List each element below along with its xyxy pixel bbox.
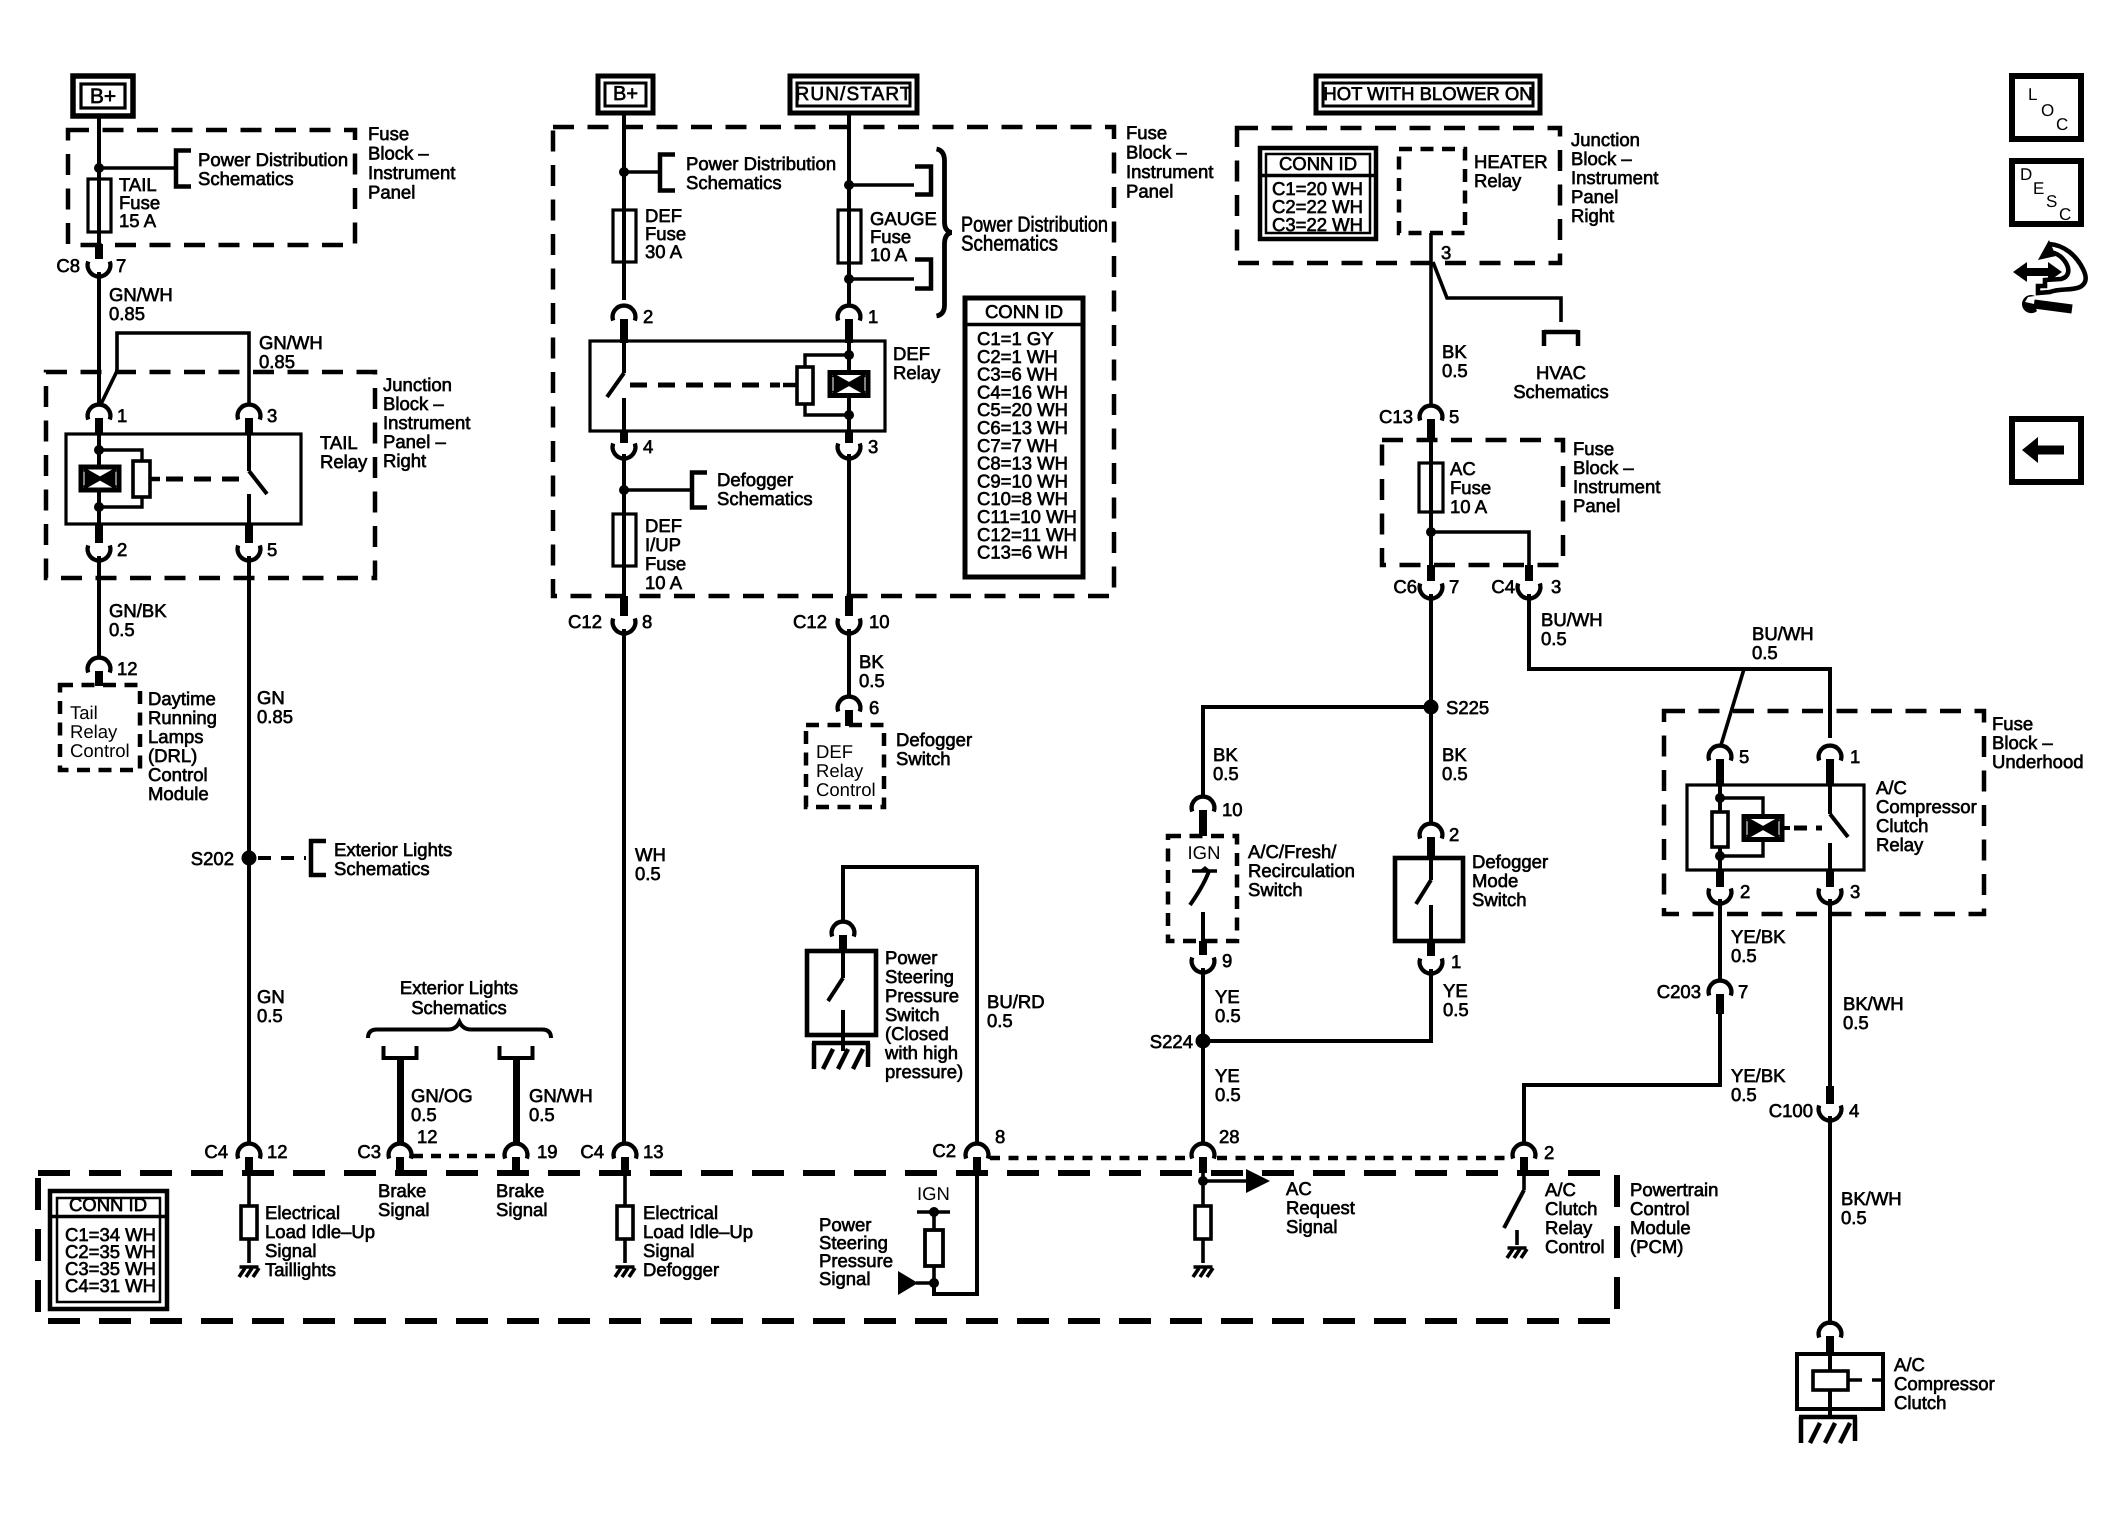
svg-text:1: 1 bbox=[117, 405, 127, 426]
A/C relay coil bbox=[1744, 817, 1782, 840]
svg-text:HEATER: HEATER bbox=[1474, 151, 1548, 172]
svg-text:Block –: Block – bbox=[1992, 732, 2053, 753]
svg-text:1: 1 bbox=[868, 306, 878, 327]
svg-text:Instrument: Instrument bbox=[1571, 167, 1658, 188]
A/C relay resistor bbox=[1712, 812, 1728, 847]
label Brake Signal (19) bbox=[496, 1180, 547, 1220]
ground (AC request) bbox=[1193, 1267, 1213, 1277]
A/C relay dashed actuation line bbox=[1782, 826, 1822, 830]
svg-text:Right: Right bbox=[383, 450, 426, 471]
svg-text:GN/OG: GN/OG bbox=[411, 1085, 473, 1106]
off-page bracket bottom (power distribution) bbox=[915, 260, 931, 289]
svg-text:BK: BK bbox=[1213, 744, 1238, 765]
curly brace power distribution bbox=[937, 149, 952, 316]
svg-text:Relay: Relay bbox=[1876, 834, 1924, 855]
svg-text:Relay: Relay bbox=[816, 760, 864, 781]
svg-text:C13: C13 bbox=[1379, 406, 1413, 427]
svg-text:Power: Power bbox=[885, 947, 937, 968]
svg-text:Fuse: Fuse bbox=[1992, 713, 2033, 734]
svg-text:L: L bbox=[2028, 85, 2037, 104]
svg-text:12: 12 bbox=[117, 658, 138, 679]
CONN ID table (middle) bbox=[965, 298, 1083, 577]
svg-text:Schematics: Schematics bbox=[961, 232, 1058, 256]
svg-text:0.5: 0.5 bbox=[987, 1010, 1013, 1031]
off-page fork (brake signal right) bbox=[500, 1046, 593, 1144]
A/C relay switch bbox=[1830, 785, 1848, 870]
svg-text:Exterior Lights: Exterior Lights bbox=[334, 839, 452, 860]
svg-text:Schematics: Schematics bbox=[1513, 381, 1609, 402]
off-page bracket: Defogger Schematics bbox=[692, 469, 813, 509]
svg-text:Module: Module bbox=[1630, 1217, 1691, 1238]
node: tap to Power Distribution Schematics (middle) bbox=[619, 167, 658, 177]
svg-text:Instrument: Instrument bbox=[368, 162, 455, 183]
ground (defogger load) bbox=[615, 1267, 635, 1277]
svg-text:13: 13 bbox=[643, 1141, 664, 1162]
svg-text:B+: B+ bbox=[613, 83, 638, 105]
svg-text:8: 8 bbox=[642, 611, 652, 632]
svg-text:Module: Module bbox=[148, 783, 209, 804]
icon box back-arrow bbox=[2012, 419, 2081, 482]
svg-text:Defogger: Defogger bbox=[1472, 851, 1548, 872]
CONN ID table (PCM) bbox=[50, 1191, 167, 1309]
connector pin 3 (A/C relay) bbox=[1819, 870, 1861, 903]
svg-text:0.5: 0.5 bbox=[257, 1005, 283, 1026]
svg-text:3: 3 bbox=[1441, 242, 1451, 263]
svg-text:BK: BK bbox=[859, 651, 884, 672]
svg-text:0.5: 0.5 bbox=[1442, 763, 1468, 784]
ground (power steering switch) bbox=[812, 1043, 870, 1069]
svg-text:BK/WH: BK/WH bbox=[1841, 1188, 1902, 1209]
svg-text:Daytime: Daytime bbox=[148, 688, 216, 709]
svg-text:7: 7 bbox=[116, 255, 126, 276]
svg-text:E: E bbox=[2033, 179, 2044, 198]
svg-text:DEF: DEF bbox=[893, 343, 930, 364]
svg-text:RUN/START: RUN/START bbox=[796, 84, 912, 105]
node: GAUGE top tap bbox=[844, 180, 914, 190]
svg-text:HVAC: HVAC bbox=[1536, 362, 1586, 383]
junction block dashed box (left) bbox=[46, 372, 375, 578]
connector pin 3 (DEF relay) bbox=[838, 431, 879, 458]
resistor Electrical Load Idle-Up Signal Taillights bbox=[241, 1173, 257, 1263]
svg-text:Powertrain: Powertrain bbox=[1630, 1179, 1718, 1200]
switch box Power Steering Pressure Switch bbox=[807, 951, 876, 1051]
DEF relay coil branch bbox=[805, 343, 854, 431]
svg-text:2: 2 bbox=[643, 306, 653, 327]
svg-text:pressure): pressure) bbox=[885, 1061, 963, 1082]
svg-text:0.85: 0.85 bbox=[109, 303, 145, 324]
svg-text:6: 6 bbox=[869, 697, 879, 718]
svg-text:Compressor: Compressor bbox=[1894, 1373, 1995, 1394]
connector pin 2 (DEF relay) bbox=[613, 306, 654, 343]
svg-text:0.85: 0.85 bbox=[259, 351, 295, 372]
svg-text:C4: C4 bbox=[580, 1141, 604, 1162]
PCM dashed box bbox=[38, 1173, 1617, 1321]
svg-text:Switch: Switch bbox=[1472, 889, 1527, 910]
wire GN 0.5 (S202 to C4-12) bbox=[249, 865, 285, 1143]
svg-text:YE: YE bbox=[1215, 1065, 1240, 1086]
svg-text:10: 10 bbox=[869, 611, 890, 632]
svg-text:10: 10 bbox=[1222, 799, 1243, 820]
svg-text:Panel: Panel bbox=[1126, 181, 1173, 202]
svg-text:Instrument: Instrument bbox=[383, 412, 470, 433]
resistor AC request (PCM) bbox=[1195, 1206, 1211, 1263]
relay box TAIL Relay bbox=[66, 432, 368, 524]
connector pin 2 (A/C relay) bbox=[1709, 870, 1751, 903]
svg-text:O: O bbox=[2041, 101, 2054, 120]
svg-text:Relay: Relay bbox=[320, 451, 368, 472]
connector pin 3 (TAIL relay) bbox=[238, 405, 278, 435]
power symbol B+ (middle) bbox=[598, 76, 653, 113]
svg-text:C8: C8 bbox=[56, 255, 80, 276]
fuse block underhood dashed box bbox=[1664, 711, 1984, 914]
svg-text:1: 1 bbox=[1850, 746, 1860, 767]
svg-text:4: 4 bbox=[643, 436, 653, 457]
svg-text:C: C bbox=[2059, 205, 2071, 224]
relay box A/C Compressor Clutch Relay bbox=[1687, 777, 1977, 870]
svg-text:S225: S225 bbox=[1446, 697, 1489, 718]
dashed tap S202 to Exterior Lights Schematics bbox=[258, 839, 452, 879]
svg-text:0.5: 0.5 bbox=[1752, 642, 1778, 663]
svg-text:Load Idle–Up: Load Idle–Up bbox=[643, 1221, 753, 1242]
label Brake Signal (C3-12) bbox=[378, 1180, 429, 1220]
connector (compressor clutch, unnumbered) bbox=[1819, 1323, 1842, 1354]
wire YE/BK 0.5 (pin 2 to C203) bbox=[1720, 899, 1786, 980]
svg-text:Block –: Block – bbox=[368, 143, 429, 164]
fuse block dashed box (AC fuse) bbox=[1382, 440, 1563, 565]
svg-text:S: S bbox=[2046, 192, 2057, 211]
node S225 bbox=[1424, 697, 1490, 823]
DEF relay dashed actuation line bbox=[630, 383, 797, 388]
svg-text:Schematics: Schematics bbox=[717, 488, 813, 509]
power symbol B+ (left) bbox=[73, 76, 133, 116]
label Electrical Load Idle-Up Signal Taillights bbox=[265, 1202, 375, 1280]
svg-text:0.5: 0.5 bbox=[1443, 999, 1469, 1020]
svg-text:HOT WITH BLOWER ON: HOT WITH BLOWER ON bbox=[1323, 83, 1532, 104]
svg-text:8: 8 bbox=[995, 1126, 1005, 1147]
connector pin 1 (DEF relay) bbox=[838, 306, 879, 343]
svg-text:Relay: Relay bbox=[70, 721, 118, 742]
fuse GAUGE Fuse 10 A bbox=[838, 208, 937, 305]
label A/C Clutch Relay Control bbox=[1545, 1179, 1605, 1257]
svg-text:C: C bbox=[2056, 115, 2068, 134]
wire WH 0.5 (C12-8 to C4-13) bbox=[624, 629, 666, 1143]
svg-text:19: 19 bbox=[537, 1141, 558, 1162]
connector pin 28 (PCM) bbox=[1192, 1126, 1240, 1173]
svg-text:Junction: Junction bbox=[1571, 129, 1640, 150]
svg-text:IGN: IGN bbox=[917, 1183, 950, 1204]
connector pin 2 (TAIL relay) bbox=[88, 524, 128, 560]
icon vehicle arrow + wrench bbox=[2013, 240, 2086, 313]
svg-text:S224: S224 bbox=[1150, 1031, 1193, 1052]
svg-text:Schematics: Schematics bbox=[334, 858, 430, 879]
svg-text:2: 2 bbox=[1740, 881, 1750, 902]
connector pin 1 (A/C compressor clutch relay) bbox=[1819, 746, 1861, 785]
svg-text:0.5: 0.5 bbox=[109, 619, 135, 640]
svg-text:0.85: 0.85 bbox=[257, 706, 293, 727]
svg-text:0.5: 0.5 bbox=[1731, 1084, 1757, 1105]
connector C13 pin 5 bbox=[1379, 406, 1459, 440]
svg-text:Schematics: Schematics bbox=[686, 172, 782, 193]
svg-text:B+: B+ bbox=[90, 85, 116, 108]
svg-text:Pressure: Pressure bbox=[885, 985, 959, 1006]
svg-text:10 A: 10 A bbox=[870, 244, 908, 265]
connector C203 pin 7 bbox=[1657, 981, 1749, 1014]
wire BK/WH 0.5 (pin 3 to C100) bbox=[1830, 899, 1904, 1086]
A/C relay coil branch bbox=[1715, 785, 1763, 870]
node: AC fuse output tap bbox=[1426, 527, 1529, 565]
connector C12 pin 10 bbox=[793, 596, 890, 633]
svg-text:S202: S202 bbox=[191, 848, 234, 869]
dashed box A/C/Fresh/Recirculation Switch bbox=[1168, 836, 1237, 941]
wire BU/WH 0.5 (C4-3 to AC relay) bbox=[1529, 594, 1830, 738]
wire YE 0.5 (S224 to pin 28) bbox=[1203, 1041, 1241, 1143]
node: tap to Defogger Schematics bbox=[619, 454, 690, 514]
TAIL relay resistor bbox=[133, 461, 150, 497]
connector C2 pin 8 (PCM) bbox=[932, 1126, 1005, 1173]
label Fuse Block - Underhood bbox=[1992, 713, 2084, 772]
wire BK 0.5 (C6-7 to S225) bbox=[1431, 594, 1468, 784]
connector pin 5 (A/C compressor clutch relay) bbox=[1709, 746, 1750, 785]
dashed box DEF Relay Control (defogger switch) bbox=[806, 725, 884, 807]
wire heater relay pin 3 bbox=[1431, 233, 1451, 405]
wire BK 0.5 (heater to C13) bbox=[1442, 341, 1468, 381]
diagonal tap BU/WH to pin 5 bbox=[1721, 623, 1814, 745]
DEF relay switch bbox=[607, 343, 624, 431]
svg-text:3: 3 bbox=[1551, 576, 1561, 597]
svg-text:0.5: 0.5 bbox=[1731, 945, 1757, 966]
svg-text:Recirculation: Recirculation bbox=[1248, 860, 1355, 881]
off-page fork (brake signal left) bbox=[384, 1046, 473, 1144]
svg-text:15 A: 15 A bbox=[119, 210, 157, 231]
svg-text:Instrument: Instrument bbox=[1573, 476, 1660, 497]
connector pin 1 (TAIL relay) bbox=[88, 405, 128, 435]
label Fuse Block - Instrument Panel (AC) bbox=[1573, 438, 1660, 516]
svg-text:Block –: Block – bbox=[1126, 142, 1187, 163]
svg-text:0.5: 0.5 bbox=[1843, 1012, 1869, 1033]
svg-text:Lamps: Lamps bbox=[148, 726, 204, 747]
svg-text:Switch: Switch bbox=[885, 1004, 940, 1025]
dashed box HEATER Relay bbox=[1399, 149, 1548, 233]
connector pin 5 (TAIL relay) bbox=[238, 524, 278, 560]
svg-text:2: 2 bbox=[117, 539, 127, 560]
svg-text:3: 3 bbox=[868, 436, 878, 457]
svg-text:TAIL: TAIL bbox=[320, 432, 358, 453]
svg-text:Clutch: Clutch bbox=[1894, 1392, 1946, 1413]
svg-text:YE: YE bbox=[1443, 980, 1468, 1001]
svg-text:Exterior Lights: Exterior Lights bbox=[400, 977, 518, 998]
off-page bracket: Power Distribution Schematics bbox=[176, 149, 348, 189]
svg-text:C4: C4 bbox=[1491, 576, 1515, 597]
svg-text:Right: Right bbox=[1571, 205, 1614, 226]
label Electrical Load Idle-Up Signal Defogger bbox=[643, 1202, 753, 1280]
dotted PCM link C2-8 to 28 to 2 bbox=[990, 1156, 1510, 1161]
svg-text:Clutch: Clutch bbox=[1545, 1198, 1597, 1219]
TAIL relay coil branch bbox=[94, 434, 142, 524]
wire B+ to DEF fuse bbox=[622, 114, 626, 211]
off-page bracket top (power distribution) bbox=[915, 167, 931, 195]
connector C100 pin 4 bbox=[1769, 1086, 1860, 1121]
A/C clutch relay control driver (PCM) bbox=[1504, 1173, 1524, 1245]
wire power steering pressure switch loop bbox=[843, 867, 1045, 1143]
connector C3 pin 12 (PCM) bbox=[357, 1126, 437, 1173]
svg-text:GN: GN bbox=[257, 687, 285, 708]
connector pin 9 (A/C fresh/recirc switch) bbox=[1192, 941, 1233, 972]
curly brace Exterior Lights bbox=[368, 1022, 551, 1038]
wire loop GN/WH 0.85 to pin 3 bbox=[101, 332, 323, 404]
node: tap to Power Distribution Schematics bbox=[94, 163, 174, 173]
fuse DEF I/UP Fuse 10 A bbox=[613, 514, 686, 596]
svg-text:IGN: IGN bbox=[1188, 842, 1221, 863]
svg-text:GN/WH: GN/WH bbox=[259, 332, 323, 353]
ground (taillights load) bbox=[239, 1267, 259, 1277]
svg-text:Clutch: Clutch bbox=[1876, 815, 1928, 836]
off-page fork HVAC bbox=[1513, 330, 1609, 402]
svg-text:BK: BK bbox=[1442, 744, 1467, 765]
label Junction Block - Instrument Panel Right bbox=[1571, 129, 1658, 226]
fuse DEF Fuse 30 A bbox=[613, 205, 686, 300]
svg-text:CONN ID: CONN ID bbox=[985, 301, 1063, 322]
svg-text:0.5: 0.5 bbox=[1541, 628, 1567, 649]
svg-text:5: 5 bbox=[267, 539, 277, 560]
fuse block dashed box (left) bbox=[68, 130, 355, 245]
svg-text:GN/WH: GN/WH bbox=[529, 1085, 593, 1106]
label Daytime Running Lamps (DRL) Control Module bbox=[148, 688, 217, 804]
ground (A/C compressor clutch) bbox=[1799, 1417, 1857, 1443]
svg-text:Taillights: Taillights bbox=[265, 1259, 336, 1280]
svg-text:AC: AC bbox=[1450, 458, 1476, 479]
svg-text:0.5: 0.5 bbox=[411, 1104, 437, 1125]
label Defogger Switch bbox=[896, 729, 972, 769]
svg-text:C3: C3 bbox=[357, 1141, 381, 1162]
svg-text:Panel: Panel bbox=[1573, 495, 1620, 516]
svg-text:Signal: Signal bbox=[643, 1240, 694, 1261]
svg-text:DEF: DEF bbox=[816, 741, 853, 762]
connector C6 pin 7 bbox=[1393, 565, 1459, 598]
svg-text:12: 12 bbox=[267, 1141, 288, 1162]
resistor Electrical Load Idle-Up Signal Defogger bbox=[617, 1173, 633, 1263]
svg-text:Block –: Block – bbox=[383, 393, 444, 414]
svg-text:Fuse: Fuse bbox=[1126, 122, 1167, 143]
fuse TAIL Fuse 15 A bbox=[88, 174, 160, 258]
svg-text:I/UP: I/UP bbox=[645, 534, 681, 555]
svg-text:Signal: Signal bbox=[378, 1199, 429, 1220]
TAIL relay switch bbox=[249, 434, 267, 524]
connector (power steering switch, unnumbered) bbox=[832, 922, 855, 951]
svg-text:BU/WH: BU/WH bbox=[1752, 623, 1814, 644]
connector C4 pin 13 (PCM) bbox=[580, 1141, 663, 1173]
svg-text:Compressor: Compressor bbox=[1876, 796, 1977, 817]
label Junction Block - Instrument Panel - Right bbox=[383, 374, 470, 471]
node: GAUGE bottom tap bbox=[844, 274, 914, 284]
svg-text:Electrical: Electrical bbox=[265, 1202, 340, 1223]
svg-text:10 A: 10 A bbox=[645, 572, 683, 593]
svg-text:YE/BK: YE/BK bbox=[1731, 1065, 1786, 1086]
svg-text:Fuse: Fuse bbox=[1573, 438, 1614, 459]
svg-text:Control: Control bbox=[816, 779, 876, 800]
IGN reference (PCM) bbox=[917, 1183, 950, 1288]
svg-text:Relay: Relay bbox=[893, 362, 941, 383]
node S202 bbox=[191, 848, 257, 869]
svg-text:0.5: 0.5 bbox=[1442, 360, 1468, 381]
svg-text:Signal: Signal bbox=[1286, 1216, 1337, 1237]
svg-text:Underhood: Underhood bbox=[1992, 751, 2084, 772]
svg-text:C12: C12 bbox=[568, 611, 602, 632]
connector C4 pin 12 (PCM) bbox=[204, 1141, 287, 1173]
svg-text:Signal: Signal bbox=[819, 1268, 870, 1289]
svg-text:BK: BK bbox=[1442, 341, 1467, 362]
wire BK 0.5 (S225 to A/C switch) bbox=[1203, 707, 1431, 796]
connector pin 10 (A/C fresh/recirc switch) bbox=[1192, 797, 1243, 836]
svg-text:C4=31 WH: C4=31 WH bbox=[65, 1275, 156, 1296]
svg-text:with high: with high bbox=[884, 1042, 958, 1063]
label Powertrain Control Module (PCM) bbox=[1630, 1179, 1718, 1257]
DEF relay coil bbox=[830, 373, 868, 396]
connector pin 2 (defogger mode switch) bbox=[1420, 824, 1460, 858]
label Defogger Mode Switch bbox=[1472, 851, 1548, 910]
svg-text:Fuse: Fuse bbox=[645, 553, 686, 574]
wire BK/WH 0.5 (C100 to compressor clutch) bbox=[1830, 1116, 1902, 1325]
svg-text:Fuse: Fuse bbox=[1450, 477, 1491, 498]
svg-text:Schematics: Schematics bbox=[198, 168, 294, 189]
svg-text:C203: C203 bbox=[1657, 981, 1701, 1002]
svg-text:GN/WH: GN/WH bbox=[109, 284, 173, 305]
svg-text:Signal: Signal bbox=[496, 1199, 547, 1220]
label Exterior Lights Schematics (brace) bbox=[400, 977, 518, 1018]
svg-text:12: 12 bbox=[417, 1126, 438, 1147]
off-page bracket: Power Distribution Schematics (middle) bbox=[660, 153, 836, 193]
svg-text:(PCM): (PCM) bbox=[1630, 1236, 1683, 1257]
svg-text:CONN ID: CONN ID bbox=[69, 1194, 147, 1215]
svg-text:A/C: A/C bbox=[1545, 1179, 1576, 1200]
label Power Distribution Schematics (large) bbox=[961, 213, 1108, 256]
connector C4 pin 3 bbox=[1491, 565, 1561, 598]
svg-text:0.5: 0.5 bbox=[1215, 1005, 1241, 1026]
svg-text:YE: YE bbox=[1215, 986, 1240, 1007]
svg-text:DEF: DEF bbox=[645, 515, 682, 536]
svg-text:YE/BK: YE/BK bbox=[1731, 926, 1786, 947]
svg-text:C2: C2 bbox=[932, 1140, 956, 1161]
node: AC request tap bbox=[1198, 1173, 1208, 1206]
svg-text:GN/BK: GN/BK bbox=[109, 600, 167, 621]
TAIL relay dashed actuation line bbox=[150, 477, 243, 482]
wire GN/BK 0.5 bbox=[99, 556, 167, 657]
svg-text:Power Distribution: Power Distribution bbox=[198, 149, 348, 170]
svg-text:A/C/Fresh/: A/C/Fresh/ bbox=[1248, 841, 1337, 862]
svg-text:Defogger: Defogger bbox=[896, 729, 972, 750]
svg-text:BU/RD: BU/RD bbox=[987, 991, 1045, 1012]
tap to HVAC schematics bbox=[1433, 262, 1561, 322]
svg-text:WH: WH bbox=[635, 844, 666, 865]
svg-text:Relay: Relay bbox=[1545, 1217, 1593, 1238]
wire GN/WH 0.85 (C8 to pin 1) bbox=[99, 272, 173, 404]
svg-text:10 A: 10 A bbox=[1450, 496, 1488, 517]
arrow Power Steering Pressure Signal bbox=[819, 1214, 934, 1295]
svg-text:C13=6 WH: C13=6 WH bbox=[977, 542, 1068, 563]
ground (A/C clutch relay control) bbox=[1507, 1248, 1527, 1258]
svg-text:2: 2 bbox=[1449, 824, 1459, 845]
svg-text:Instrument: Instrument bbox=[1126, 161, 1213, 182]
icon box LOC bbox=[2012, 76, 2081, 139]
label Fuse Block - Instrument Panel (middle) bbox=[1126, 122, 1213, 202]
svg-text:Request: Request bbox=[1286, 1197, 1355, 1218]
svg-text:Block –: Block – bbox=[1571, 148, 1632, 169]
svg-text:9: 9 bbox=[1222, 950, 1232, 971]
svg-text:1: 1 bbox=[1451, 951, 1461, 972]
svg-text:Panel: Panel bbox=[368, 182, 415, 203]
svg-text:3: 3 bbox=[267, 405, 277, 426]
svg-text:Switch: Switch bbox=[1248, 879, 1303, 900]
icon box DESC bbox=[2012, 161, 2081, 224]
